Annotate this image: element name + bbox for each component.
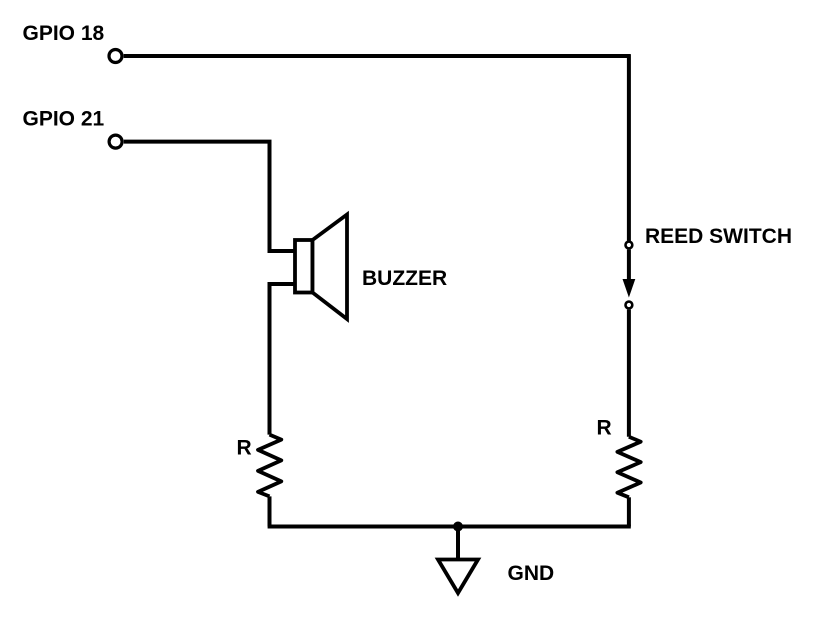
resistor R left bbox=[258, 435, 281, 497]
wire bottom rail bbox=[268, 525, 631, 529]
ground bbox=[438, 560, 478, 594]
svg-text:GPIO 21: GPIO 21 bbox=[23, 107, 105, 130]
reed switch blade bbox=[627, 250, 631, 280]
svg-text:REED SWITCH: REED SWITCH bbox=[645, 225, 792, 248]
buzzer cone bbox=[313, 215, 348, 320]
reed switch arrowhead bbox=[623, 279, 636, 298]
wire junction to ground bbox=[456, 527, 460, 560]
buzzer body rect bbox=[295, 240, 313, 293]
wire down to reed switch bbox=[627, 54, 631, 241]
svg-text:GND: GND bbox=[508, 562, 555, 585]
svg-text:GPIO 18: GPIO 18 bbox=[23, 22, 105, 45]
wire GPIO18 to top-right corner bbox=[124, 54, 631, 58]
svg-text:R: R bbox=[597, 416, 612, 439]
terminal GPIO 21 bbox=[109, 135, 122, 148]
wire left resistor to bottom rail bbox=[268, 496, 272, 526]
reed switch S1 bbox=[623, 242, 636, 309]
wire reed switch to right resistor bbox=[627, 310, 631, 437]
svg-text:BUZZER: BUZZER bbox=[362, 267, 447, 290]
junction dot bbox=[453, 522, 463, 532]
terminal GPIO 18 bbox=[109, 50, 122, 63]
wire right resistor to bottom rail bbox=[627, 497, 631, 526]
svg-text:R: R bbox=[237, 436, 252, 459]
resistor R right bbox=[617, 437, 640, 498]
buzzer U1 bbox=[295, 215, 347, 320]
wire GPIO21 right then down to buzzer top bbox=[124, 142, 295, 251]
reed switch top contact bbox=[626, 242, 633, 249]
wire buzzer bottom down to left resistor bbox=[270, 284, 296, 435]
reed switch bottom contact bbox=[626, 302, 633, 309]
